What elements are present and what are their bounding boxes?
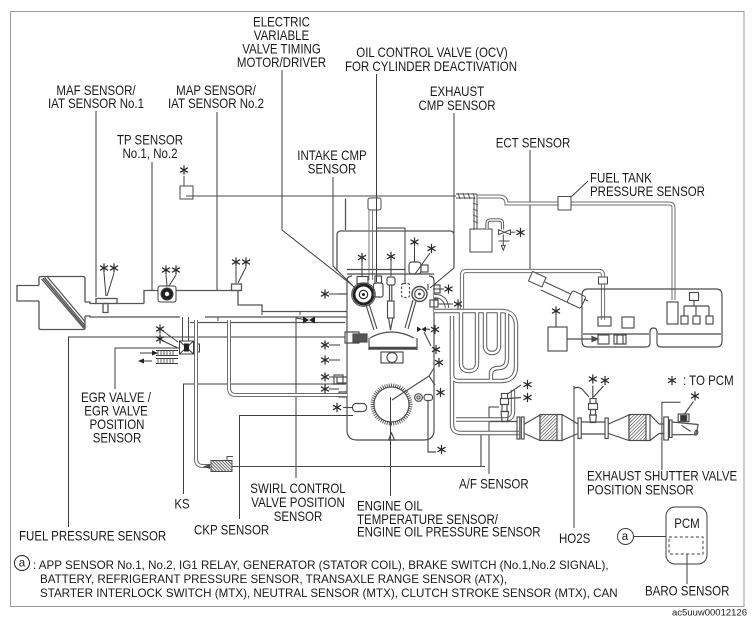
- svg-text:IAT SENSOR No.1: IAT SENSOR No.1: [48, 96, 144, 111]
- svg-text:: TO PCM: : TO PCM: [683, 373, 734, 388]
- svg-text:SWIRL CONTROL: SWIRL CONTROL: [250, 481, 346, 496]
- svg-text:: APP SENSOR No.1, No.2, IG1 R: : APP SENSOR No.1, No.2, IG1 RELAY, GENE…: [33, 559, 609, 572]
- svg-text:ECT SENSOR: ECT SENSOR: [496, 136, 571, 151]
- svg-text:No.1, No.2: No.1, No.2: [123, 146, 178, 161]
- svg-text:BARO SENSOR: BARO SENSOR: [645, 584, 729, 599]
- svg-text:STARTER INTERLOCK SWITCH (MTX): STARTER INTERLOCK SWITCH (MTX), NEUTRAL …: [40, 587, 618, 600]
- svg-text:A/F SENSOR: A/F SENSOR: [459, 477, 529, 492]
- svg-text:IAT SENSOR No.2: IAT SENSOR No.2: [168, 96, 264, 111]
- svg-text:a: a: [19, 557, 26, 570]
- svg-text:SENSOR: SENSOR: [274, 509, 323, 524]
- svg-text:OIL CONTROL VALVE (OCV): OIL CONTROL VALVE (OCV): [356, 45, 508, 60]
- svg-text:CKP SENSOR: CKP SENSOR: [194, 523, 269, 538]
- svg-text:POSITION SENSOR: POSITION SENSOR: [587, 483, 694, 498]
- svg-text:a: a: [622, 531, 629, 543]
- svg-text:VALVE POSITION: VALVE POSITION: [251, 495, 345, 510]
- svg-text:SENSOR: SENSOR: [93, 431, 142, 446]
- svg-text:HO2S: HO2S: [559, 531, 590, 546]
- svg-text:PCM: PCM: [674, 516, 700, 531]
- svg-text:CMP SENSOR: CMP SENSOR: [418, 98, 495, 113]
- svg-text:EXHAUST SHUTTER VALVE: EXHAUST SHUTTER VALVE: [587, 469, 737, 484]
- svg-text:PRESSURE SENSOR: PRESSURE SENSOR: [590, 184, 705, 199]
- svg-text:KS: KS: [174, 497, 189, 512]
- svg-text:BATTERY, REFRIGERANT PRESSURE: BATTERY, REFRIGERANT PRESSURE SENSOR, TR…: [40, 573, 507, 586]
- svg-text:FOR CYLINDER DEACTIVATION: FOR CYLINDER DEACTIVATION: [345, 59, 517, 74]
- svg-text:MOTOR/DRIVER: MOTOR/DRIVER: [237, 55, 326, 70]
- svg-text:FUEL PRESSURE SENSOR: FUEL PRESSURE SENSOR: [19, 529, 166, 544]
- svg-text:ac5uuw00012126: ac5uuw00012126: [672, 608, 747, 619]
- svg-text:SENSOR: SENSOR: [308, 162, 357, 177]
- svg-text:EXHAUST: EXHAUST: [430, 84, 485, 99]
- svg-text:ENGINE OIL PRESSURE SENSOR: ENGINE OIL PRESSURE SENSOR: [357, 525, 541, 540]
